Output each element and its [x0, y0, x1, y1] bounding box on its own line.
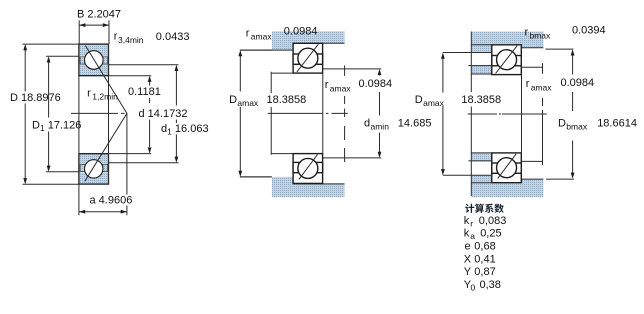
svg-text:0,083: 0,083: [479, 215, 507, 227]
svg-text:0.0984: 0.0984: [359, 78, 393, 90]
svg-text:14.685: 14.685: [398, 118, 432, 130]
svg-text:a 4.9606: a 4.9606: [90, 195, 133, 207]
svg-text:1,2min: 1,2min: [92, 92, 118, 102]
svg-text:k: k: [464, 228, 470, 240]
svg-text:r: r: [87, 88, 91, 100]
svg-text:18.3858: 18.3858: [461, 94, 501, 106]
svg-text:0,41: 0,41: [474, 254, 495, 266]
svg-text:0.0984: 0.0984: [561, 77, 595, 89]
svg-text:0.0433: 0.0433: [156, 31, 190, 43]
svg-text:3,4min: 3,4min: [118, 35, 144, 45]
svg-text:0.0984: 0.0984: [284, 26, 318, 38]
svg-text:r: r: [525, 27, 529, 39]
svg-text:d: d: [364, 118, 370, 130]
svg-text:Y: Y: [464, 266, 472, 278]
svg-text:0,87: 0,87: [474, 266, 495, 278]
svg-text:d 14.1732: d 14.1732: [139, 108, 188, 120]
svg-text:0: 0: [471, 283, 476, 293]
svg-text:amin: amin: [371, 122, 390, 132]
svg-text:amax: amax: [330, 84, 352, 94]
svg-text:D: D: [558, 118, 566, 130]
svg-text:amax: amax: [531, 83, 553, 93]
svg-text:bmax: bmax: [566, 122, 588, 132]
svg-text:k: k: [464, 215, 470, 227]
svg-text:amax: amax: [237, 98, 259, 108]
svg-text:r: r: [526, 78, 530, 90]
svg-text:e: e: [465, 241, 471, 253]
svg-text:18.6614: 18.6614: [597, 118, 637, 130]
svg-text:D: D: [229, 94, 237, 106]
svg-text:amax: amax: [423, 98, 445, 108]
svg-text:0.0394: 0.0394: [572, 25, 606, 37]
svg-text:a: a: [470, 231, 475, 241]
svg-text:r: r: [246, 28, 250, 40]
svg-text:amax: amax: [251, 32, 273, 42]
svg-text:X: X: [464, 254, 472, 266]
svg-text:B 2.2047: B 2.2047: [77, 9, 121, 21]
svg-text:D 18.8976: D 18.8976: [10, 92, 61, 104]
svg-text:0,25: 0,25: [480, 228, 501, 240]
svg-text:0.1181: 0.1181: [128, 86, 161, 98]
svg-text:D1 17.126: D1 17.126: [32, 120, 81, 134]
svg-text:0,68: 0,68: [474, 241, 495, 253]
svg-text:18.3858: 18.3858: [267, 94, 307, 106]
svg-text:bmax: bmax: [530, 31, 552, 41]
svg-text:r: r: [470, 219, 473, 229]
svg-text:r: r: [325, 79, 329, 91]
svg-text:0,38: 0,38: [480, 279, 501, 291]
svg-text:D: D: [415, 94, 423, 106]
